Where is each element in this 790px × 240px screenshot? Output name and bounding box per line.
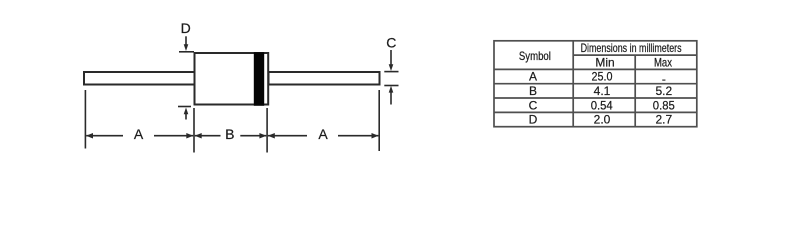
- svg-text:Min: Min: [595, 55, 614, 69]
- svg-text:D: D: [529, 113, 538, 127]
- svg-text:25.0: 25.0: [592, 70, 613, 84]
- dimension C bottom arrow: [390, 93, 392, 105]
- extension lines for A/B/A dimensions: [85, 90, 379, 153]
- dimension C top tick: [384, 71, 398, 73]
- extension line right lead end: [378, 90, 380, 151]
- svg-text:D: D: [181, 20, 191, 36]
- right lead (wire): [269, 72, 380, 85]
- dimension D bottom tick: [178, 106, 191, 108]
- dimension D top arrow: [178, 36, 194, 119]
- svg-text:C: C: [529, 98, 538, 112]
- svg-text:0.85: 0.85: [653, 98, 675, 112]
- svg-text:B: B: [529, 84, 537, 98]
- cathode band: [254, 52, 264, 106]
- svg-text:A: A: [529, 70, 537, 84]
- svg-text:C: C: [386, 34, 396, 50]
- svg-text:2.7: 2.7: [655, 113, 672, 127]
- dimension C bottom tick: [384, 85, 398, 87]
- svg-text:Max: Max: [654, 55, 672, 69]
- diode body: [195, 53, 269, 105]
- svg-text:5.2: 5.2: [655, 84, 672, 98]
- dimension C top arrow: [390, 50, 392, 65]
- svg-text:B: B: [225, 126, 234, 142]
- svg-text:Dimensions in millimeters: Dimensions in millimeters: [581, 41, 682, 55]
- svg-text:A: A: [318, 126, 328, 142]
- dimension D bottom arrow: [185, 113, 187, 119]
- dimension line A left segment: [86, 133, 193, 139]
- dimensions table frame: [494, 41, 697, 127]
- dimension line B segment: [195, 133, 267, 139]
- extension line left lead end: [84, 90, 86, 149]
- svg-text:Symbol: Symbol: [519, 49, 551, 63]
- left lead (wire): [84, 72, 195, 85]
- svg-text:2.0: 2.0: [594, 113, 611, 127]
- dimension D top tick: [179, 51, 194, 53]
- extension line body right: [266, 108, 268, 153]
- table row lines: [573, 54, 697, 56]
- svg-text:4.1: 4.1: [594, 84, 611, 98]
- svg-text:A: A: [134, 126, 144, 142]
- table column lines: [572, 41, 574, 127]
- extension line body left: [193, 108, 195, 153]
- svg-text:0.54: 0.54: [591, 98, 613, 112]
- dimension line A right segment: [268, 133, 379, 139]
